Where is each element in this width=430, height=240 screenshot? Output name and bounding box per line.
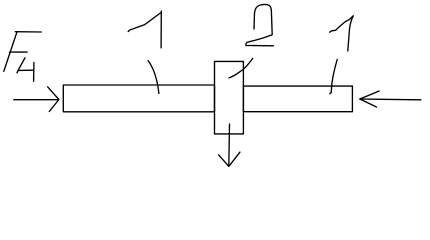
label 1 left stem: [160, 11, 162, 48]
bar left section: [63, 85, 214, 112]
down arrowhead: [219, 152, 240, 166]
down arrow shaft: [228, 124, 231, 166]
label 1 right flag: [330, 16, 354, 32]
label 2 body: [246, 4, 274, 45]
subscript 4 vertical: [33, 63, 35, 82]
label 1 left flag: [128, 13, 160, 32]
subscript 4 horizontal: [19, 69, 34, 71]
right force arrow shaft: [360, 98, 421, 101]
subscript 4 diagonal: [17, 58, 25, 73]
left force arrow shaft: [14, 99, 59, 101]
label F top bar: [15, 31, 41, 33]
label F middle bar: [10, 51, 28, 53]
collar 2: [215, 61, 244, 133]
label 1 right stem: [348, 16, 353, 51]
leader line 2: [229, 58, 253, 78]
right force arrowhead: [360, 91, 379, 107]
leader line left 1: [148, 61, 159, 94]
bar right section: [243, 86, 352, 112]
left force arrowhead: [48, 87, 59, 112]
label F slanted stem: [4, 32, 17, 71]
leader line right 1: [330, 60, 337, 94]
